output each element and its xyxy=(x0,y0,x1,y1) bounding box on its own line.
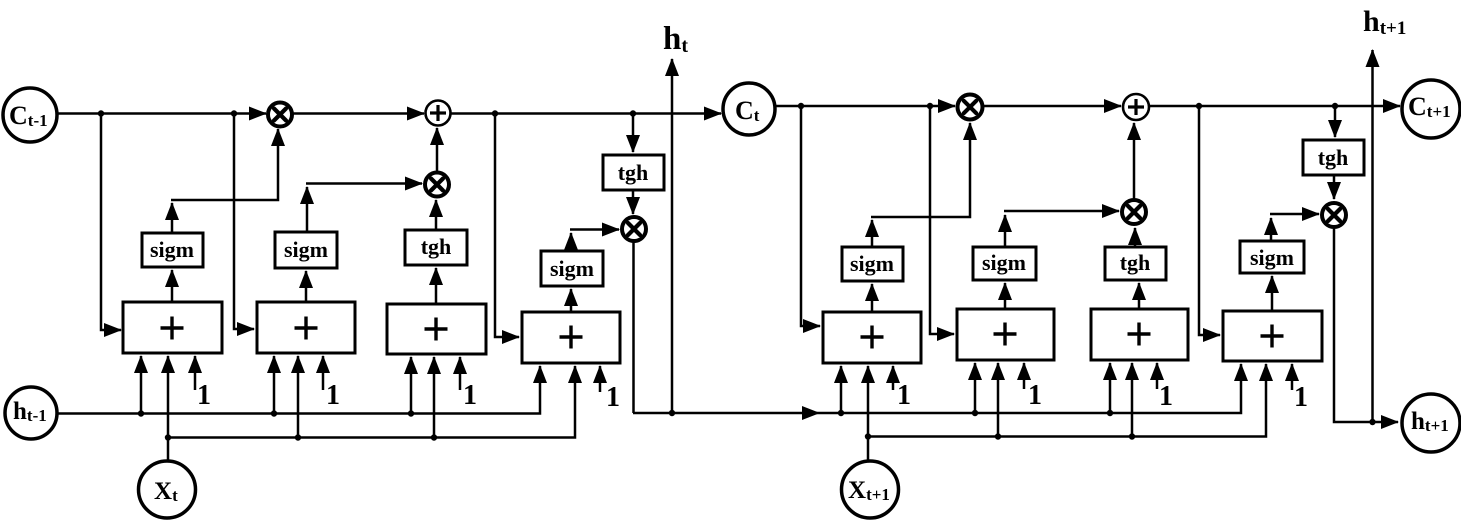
wire bias riser addbox4b xyxy=(1291,364,1294,390)
wire addbox4 to sigm4 xyxy=(570,289,573,312)
mult2b circle-x xyxy=(1122,200,1146,224)
svg-text:sigm: sigm xyxy=(1250,245,1294,270)
svg-text:1: 1 xyxy=(1028,380,1042,411)
addbox3 A3 xyxy=(387,304,486,354)
node junction h-line x975 xyxy=(972,410,978,416)
plus1 circle-plus xyxy=(426,101,451,126)
node junction C-line x234 xyxy=(231,110,237,116)
node junction ht x672 xyxy=(669,410,675,416)
svg-text:1: 1 xyxy=(463,380,477,411)
wire peephole branch to addbox4b xyxy=(1199,106,1220,335)
wire mult2b to plus1b xyxy=(1133,123,1136,199)
wire C-line from Ct-1 to mult1 xyxy=(56,112,266,115)
mult1b circle-x xyxy=(958,95,983,120)
svg-text:sigm: sigm xyxy=(150,237,194,262)
sigm4b box xyxy=(1240,241,1304,273)
addbox4b B4 xyxy=(1223,311,1322,361)
wire sigm4b up arrow xyxy=(1270,218,1273,241)
wire peephole branch to addbox1b xyxy=(801,106,820,326)
node junction h-line x141 xyxy=(138,410,144,416)
svg-text:sigm: sigm xyxy=(982,250,1026,275)
wire C branch into tghh2 xyxy=(1334,106,1337,137)
plus sign addbox4b xyxy=(1261,325,1284,348)
svg-text:tgh: tgh xyxy=(1120,250,1151,275)
wire X riser addbox2b xyxy=(997,363,1000,437)
node junction X-line x434 xyxy=(431,434,437,440)
wire h-line cell2 with arrow xyxy=(633,412,819,415)
wire sigm4 up arrow xyxy=(570,233,573,251)
sigm1b box xyxy=(842,247,903,281)
wire ht+1 up arrow xyxy=(1371,50,1374,422)
node junction X-line x868 xyxy=(865,433,871,439)
wire h riser addbox2 xyxy=(273,356,276,414)
plus sign addbox1 xyxy=(161,317,184,340)
Ct-1 circle xyxy=(3,88,57,142)
addbox1b B1 xyxy=(823,312,921,363)
wire sigm2b up arrow xyxy=(1004,215,1007,247)
Ct+1 circle xyxy=(1402,80,1460,138)
wire C branch into tghh1 xyxy=(632,114,635,153)
wire bias riser addbox3 xyxy=(459,357,462,390)
svg-text:sigm: sigm xyxy=(284,237,328,262)
tghh1 box xyxy=(603,155,664,190)
ht-1 circle xyxy=(5,387,57,439)
wire bias riser addbox2b xyxy=(1023,363,1026,389)
tghh2 box xyxy=(1303,140,1364,175)
node junction C-line x633 xyxy=(630,110,636,116)
wire addbox2b to sigm2b xyxy=(1004,283,1007,309)
wire C-line mult1b to plus1b xyxy=(983,105,1121,108)
Xt+1 circle xyxy=(842,461,899,518)
sigm2b box xyxy=(973,247,1036,280)
plus sign addbox1b xyxy=(861,326,884,349)
wire h riser addbox3b xyxy=(1109,363,1112,413)
wire bias riser addbox1b xyxy=(892,366,895,390)
Xt circle xyxy=(139,461,196,518)
addbox4 A4 xyxy=(522,312,620,363)
Ct circle xyxy=(723,83,775,135)
node junction h-line x1110 xyxy=(1107,410,1113,416)
svg-text:1: 1 xyxy=(1159,381,1173,412)
addbox3b B3 xyxy=(1091,309,1188,360)
wire sigm1 to mult1 elbow xyxy=(171,129,278,200)
addbox2b B2 xyxy=(957,309,1054,360)
wire mult3 down to h-line cell2 xyxy=(632,242,635,413)
svg-text:1: 1 xyxy=(326,380,340,411)
wire X riser addbox3 xyxy=(433,357,436,438)
plus sign addbox2b xyxy=(994,323,1017,346)
node junction C-line x801 xyxy=(798,103,804,109)
wire addbox4b to sigm4b xyxy=(1271,276,1274,311)
wire h riser addbox2b xyxy=(974,363,977,413)
wire Xt+1 line xyxy=(868,364,1266,437)
wire h riser addbox1b xyxy=(840,366,843,413)
plus sign addbox2 xyxy=(295,317,318,340)
svg-text:1: 1 xyxy=(897,380,911,411)
node junction X-line x298 xyxy=(295,434,301,440)
addbox1 A1 xyxy=(123,302,222,353)
wire Xt vertical riser to addbox1 xyxy=(167,356,170,462)
mult2 circle-x xyxy=(425,173,449,197)
plus sign addbox4 xyxy=(560,326,583,349)
wire sigm1 up arrow xyxy=(171,203,174,233)
plus sign addbox3b xyxy=(1128,323,1151,346)
wire peephole branch to addbox1 xyxy=(101,114,121,331)
wire C-line Ct to mult1b xyxy=(775,105,955,108)
plus1b circle-plus xyxy=(1123,94,1149,120)
wire h riser addbox1 xyxy=(140,356,143,414)
wire bias riser addbox4 xyxy=(599,366,602,392)
wire C-line mult1 to plus1 xyxy=(293,112,424,115)
svg-text:tgh: tgh xyxy=(421,234,452,259)
wire tghh2 to mult3b xyxy=(1333,175,1336,199)
wire Xt+1 vertical riser to addbox1b xyxy=(867,366,870,462)
wire addbox2 to sigm2 xyxy=(305,271,308,302)
node junction h-line x411 xyxy=(408,410,414,416)
sigm2 box xyxy=(275,232,337,268)
wire ht-1 line xyxy=(57,366,540,414)
node junction ht+1 x1372 xyxy=(1369,419,1375,425)
node junction h-line x841 xyxy=(838,410,844,416)
wire peephole branch to addbox2b xyxy=(930,106,954,334)
node junction C-line x1199 xyxy=(1196,103,1202,109)
wire ht up arrow xyxy=(671,59,674,413)
mult3b circle-x xyxy=(1322,203,1346,227)
wire tgh2 to mult2b xyxy=(1134,228,1137,247)
wire C-line plus1 to Ct xyxy=(450,112,721,115)
wire sigm2 to mult2 xyxy=(306,182,422,185)
node junction C-line x495 xyxy=(492,110,498,116)
svg-text:1: 1 xyxy=(606,382,620,413)
node junction C-line x101 xyxy=(98,110,104,116)
tgh1 box xyxy=(405,230,467,265)
wire bias riser addbox3b xyxy=(1156,363,1159,389)
svg-text:1: 1 xyxy=(197,380,211,411)
wire X riser addbox2 xyxy=(297,356,300,438)
wire mult2 to plus1 xyxy=(436,128,439,172)
wire sigm2 up arrow xyxy=(306,187,309,232)
wire sigm2b to mult2b xyxy=(1004,210,1119,213)
wire addbox1b to sigm1b xyxy=(871,284,874,312)
wire addbox3 to tgh1 xyxy=(435,268,438,304)
addbox2 A2 xyxy=(257,302,355,353)
wire X riser addbox3b xyxy=(1131,363,1134,437)
wire addbox3b to tgh2 xyxy=(1138,283,1141,309)
ht+1 circle xyxy=(1402,394,1460,452)
wire Xt line xyxy=(168,366,575,438)
mult1 circle-x xyxy=(268,103,292,127)
svg-text:sigm: sigm xyxy=(850,251,894,276)
node junction C-line x1335 xyxy=(1332,103,1338,109)
node junction X-line x998 xyxy=(995,433,1001,439)
svg-text:tgh: tgh xyxy=(1318,145,1349,170)
node junction X-line x168 xyxy=(165,434,171,440)
node junction C-line x930 xyxy=(927,103,933,109)
wire tgh1 to mult2 xyxy=(435,200,438,230)
svg-text:tgh: tgh xyxy=(618,160,649,185)
tgh2 box xyxy=(1105,247,1166,280)
wire sigm4b to mult3b xyxy=(1270,213,1319,216)
wire bias riser addbox2 xyxy=(322,356,325,390)
sigm1 box xyxy=(142,233,203,267)
node junction X-line x1132 xyxy=(1129,433,1135,439)
mult3 circle-x xyxy=(622,217,646,241)
wire C-line plus1b to Ct+1 xyxy=(1149,105,1400,108)
plus sign addbox3 xyxy=(425,318,448,341)
wire sigm1b up arrow xyxy=(871,220,874,247)
wire addbox1 to sigm1 xyxy=(171,270,174,302)
svg-text:sigm: sigm xyxy=(550,256,594,281)
wire sigm1b to mult1b elbow xyxy=(871,123,970,217)
sigm4 box xyxy=(541,251,603,286)
wire h riser addbox3 xyxy=(410,357,413,414)
wire mult3b down to ht+1 xyxy=(1334,228,1398,422)
svg-text:1: 1 xyxy=(1294,382,1308,413)
wire peephole branch to addbox2 xyxy=(234,114,254,330)
wire tghh1 to mult3 xyxy=(632,190,635,214)
wire bias riser addbox1 xyxy=(194,356,197,390)
wire h-line cell2 continued xyxy=(819,364,1241,413)
node junction h-line x274 xyxy=(271,410,277,416)
wire peephole branch to addbox4 xyxy=(495,114,519,338)
wire sigm4 to mult3 xyxy=(570,228,619,231)
